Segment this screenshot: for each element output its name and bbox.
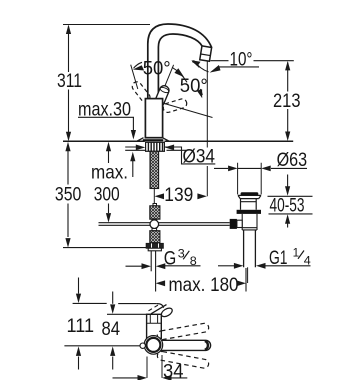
dimension max.300 vertical line xyxy=(108,151,110,213)
svg-text:8: 8 xyxy=(190,255,197,268)
threaded hose segment 2 xyxy=(150,206,160,219)
supply pipe G3/8 xyxy=(150,251,152,271)
svg-text:max.: max. xyxy=(91,161,128,183)
threaded shank upper xyxy=(150,151,159,188)
svg-text:300: 300 xyxy=(94,184,120,206)
faucet body xyxy=(145,99,162,138)
wire: ref line B (body top) xyxy=(107,313,151,315)
dimension Ø63 extension lines xyxy=(238,163,262,195)
dashed handle down position xyxy=(157,351,210,369)
node: spout tip centerline xyxy=(206,62,208,197)
handle dashed position right xyxy=(162,98,188,114)
temperature stop screw xyxy=(140,343,145,348)
angle 50 left arc + arrow xyxy=(134,62,143,68)
tee ball joint xyxy=(150,220,159,229)
svg-text:G1: G1 xyxy=(269,247,288,269)
drain lock nut xyxy=(237,210,261,214)
pop-up rod left xyxy=(99,223,151,226)
drain flange xyxy=(238,195,261,198)
drain tailpipe xyxy=(244,230,256,267)
wire: reference line at 350 bottom xyxy=(63,247,146,249)
cap outer circle xyxy=(144,336,163,355)
drain body below nut xyxy=(242,214,257,230)
dimension 40-53 arrows xyxy=(287,175,289,187)
dimension 34 xyxy=(147,355,162,378)
dimension leader Ø34 arrows at shank xyxy=(136,145,146,151)
svg-text:34: 34 xyxy=(163,360,184,380)
svg-text:max. 180: max. 180 xyxy=(169,274,239,296)
wire: short deck underside lines left of shank xyxy=(125,147,186,150)
handle dashed position left xyxy=(130,80,151,104)
svg-text:50°: 50° xyxy=(180,75,208,97)
dimension Ø63 line + arrows xyxy=(214,167,307,169)
dimension 111 xyxy=(78,278,80,294)
svg-text:50°: 50° xyxy=(143,58,171,80)
handle lever solid xyxy=(153,84,170,108)
base flange xyxy=(137,138,168,141)
svg-text:350: 350 xyxy=(55,184,82,206)
pop-up rod right xyxy=(158,223,230,226)
angle 50 right arc top + arrow xyxy=(192,62,199,68)
spout gooseneck outer curve xyxy=(148,24,212,99)
angle 50 left extension ray xyxy=(131,65,138,89)
hose neck xyxy=(153,204,157,206)
node: shank centerline gap xyxy=(153,189,155,204)
svg-text:111: 111 xyxy=(67,315,95,337)
angle 50 right arc + arrow xyxy=(172,67,187,82)
10deg angle arc xyxy=(194,60,209,72)
svg-text:Ø63: Ø63 xyxy=(277,149,308,171)
wire: 10deg reference line xyxy=(211,60,294,62)
dimension 40-53 extension lines xyxy=(268,196,313,214)
side spout nozzle xyxy=(151,305,170,319)
dimension 350 vertical line xyxy=(67,151,69,237)
dimension 84 xyxy=(112,292,114,304)
dimension G1 1/4 xyxy=(218,265,234,267)
solid handle lever xyxy=(150,340,211,350)
angle 50 right arc bottom + arrow xyxy=(200,89,202,95)
hex nut xyxy=(146,243,163,248)
10deg leader arrow to tip xyxy=(218,66,260,68)
wire: ref line C (centerline) xyxy=(64,345,140,347)
threaded hose segment 3 xyxy=(152,229,157,231)
drain plug cap xyxy=(241,192,259,195)
max.30 lower arrow below deck xyxy=(132,161,134,177)
svg-text:84: 84 xyxy=(102,318,121,340)
mounting washer block xyxy=(146,142,165,151)
spout tip hook xyxy=(157,304,164,308)
spout gooseneck inner curve xyxy=(158,34,202,99)
wire: ref line A (spout top) xyxy=(73,302,157,304)
dimension 311 vertical line xyxy=(68,26,70,140)
aerator at spout tip xyxy=(200,46,212,61)
node: tailpipe centerline xyxy=(247,267,249,283)
side body xyxy=(147,314,162,338)
angle 50 right: down-right ray xyxy=(161,103,213,118)
deck / counter line xyxy=(63,140,293,142)
pop-up rod clamp fitting xyxy=(230,219,237,229)
svg-text:4: 4 xyxy=(304,255,312,268)
svg-text:139: 139 xyxy=(164,184,193,206)
cap inner ring xyxy=(146,338,160,352)
svg-text:213: 213 xyxy=(273,90,301,112)
svg-text:G: G xyxy=(164,247,177,269)
svg-text:311: 311 xyxy=(57,70,82,92)
dimension G3/8 arrows xyxy=(126,265,143,267)
svg-text:40-53: 40-53 xyxy=(270,194,305,216)
angle 50 lever axis ray xyxy=(159,65,173,100)
svg-text:Ø34: Ø34 xyxy=(183,145,216,167)
dimension max. 180 xyxy=(245,268,247,292)
drain body xyxy=(241,199,257,210)
dashed handle up position xyxy=(157,323,210,341)
dimension 139 xyxy=(155,193,165,199)
wire: top extension line at spout level xyxy=(63,24,150,26)
dimension 213 xyxy=(287,63,289,139)
